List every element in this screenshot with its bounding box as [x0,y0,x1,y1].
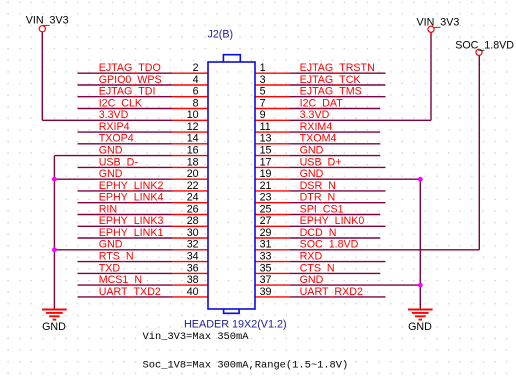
svg-text:DSR_N: DSR_N [300,180,336,192]
svg-text:USB_D+: USB_D+ [300,156,342,168]
svg-text:GND: GND [300,145,324,157]
svg-text:16: 16 [187,145,199,157]
svg-text:23: 23 [260,192,272,204]
svg-text:EPHY_LINK3: EPHY_LINK3 [99,215,164,227]
svg-text:32: 32 [187,239,199,251]
svg-text:3.3VD: 3.3VD [300,109,330,121]
svg-text:27: 27 [260,215,272,227]
svg-text:RXD: RXD [300,251,323,263]
svg-text:SOC_1.8VD: SOC_1.8VD [455,40,514,52]
svg-text:DCD_N: DCD_N [300,227,337,239]
svg-text:EJTAG_TMS: EJTAG_TMS [300,86,362,98]
svg-text:18: 18 [187,156,199,168]
svg-text:RTS_N: RTS_N [99,251,134,263]
svg-text:GND: GND [99,145,123,157]
svg-text:4: 4 [193,74,199,86]
svg-text:9: 9 [260,109,266,121]
svg-text:8: 8 [193,97,199,109]
svg-text:HEADER 19X2(V1.2): HEADER 19X2(V1.2) [184,319,287,331]
svg-text:Soc_1V8=Max 300mA,Range(1.5~1.: Soc_1V8=Max 300mA,Range(1.5~1.8V) [143,359,349,371]
svg-text:GND: GND [99,239,123,251]
svg-text:CTS_N: CTS_N [300,262,335,274]
svg-text:EJTAG_TCK: EJTAG_TCK [300,74,362,86]
svg-text:36: 36 [187,262,199,274]
svg-text:2: 2 [193,62,199,74]
svg-text:10: 10 [187,109,199,121]
svg-text:38: 38 [187,274,199,286]
svg-text:RIN: RIN [99,203,117,215]
svg-text:1: 1 [260,62,266,74]
svg-text:EJTAG_TDO: EJTAG_TDO [99,62,161,74]
svg-text:SOC_1.8VD: SOC_1.8VD [300,239,359,251]
svg-text:12: 12 [187,121,199,133]
svg-text:EPHY_LINK1: EPHY_LINK1 [99,227,164,239]
svg-text:17: 17 [260,156,272,168]
svg-text:GPIO0_WPS: GPIO0_WPS [99,74,162,86]
svg-text:I2C_DAT: I2C_DAT [300,97,344,109]
svg-text:29: 29 [260,227,272,239]
svg-text:GND: GND [408,321,432,333]
svg-text:EJTAG_TDI: EJTAG_TDI [99,86,156,98]
svg-text:Vin_3V3=Max 350mA: Vin_3V3=Max 350mA [143,331,250,343]
svg-text:GND: GND [99,168,123,180]
svg-text:6: 6 [193,86,199,98]
svg-text:EPHY_LINK4: EPHY_LINK4 [99,192,164,204]
svg-text:35: 35 [260,262,272,274]
svg-text:SPI_CS1: SPI_CS1 [300,203,344,215]
svg-text:EPHY_LINK0: EPHY_LINK0 [300,215,365,227]
svg-text:11: 11 [260,121,271,133]
svg-text:7: 7 [260,97,266,109]
svg-text:GND: GND [300,168,324,180]
svg-text:3: 3 [260,74,266,86]
svg-text:30: 30 [187,227,199,239]
svg-text:TXOM4: TXOM4 [300,133,337,145]
svg-text:UART_TXD2: UART_TXD2 [99,286,161,298]
svg-text:I2C_CLK: I2C_CLK [99,97,143,109]
svg-text:26: 26 [187,203,199,215]
svg-text:GND: GND [42,321,66,333]
svg-text:MCS1_N: MCS1_N [99,274,142,286]
svg-text:33: 33 [260,251,272,263]
svg-text:EJTAG_TRSTN: EJTAG_TRSTN [300,62,375,74]
svg-text:GND: GND [300,274,324,286]
svg-text:15: 15 [260,145,272,157]
svg-text:3.3VD: 3.3VD [99,109,129,121]
svg-text:DTR_N: DTR_N [300,192,336,204]
svg-text:19: 19 [260,168,272,180]
svg-text:31: 31 [260,239,272,251]
svg-text:EPHY_LINK2: EPHY_LINK2 [99,180,164,192]
svg-text:22: 22 [187,180,199,192]
svg-text:20: 20 [187,168,199,180]
svg-text:USB_D-: USB_D- [99,156,139,168]
svg-text:24: 24 [187,192,199,204]
svg-text:39: 39 [260,286,272,298]
svg-text:34: 34 [187,251,199,263]
svg-text:RXIM4: RXIM4 [300,121,333,133]
svg-text:TXD: TXD [99,262,121,274]
svg-text:RXIP4: RXIP4 [99,121,130,133]
svg-text:25: 25 [260,203,272,215]
svg-text:21: 21 [260,180,272,192]
svg-text:TXOP4: TXOP4 [99,133,134,145]
svg-text:J2(B): J2(B) [208,28,234,40]
svg-text:VIN_3V3: VIN_3V3 [26,15,69,27]
svg-text:5: 5 [260,86,266,98]
svg-text:40: 40 [187,286,199,298]
svg-text:VIN_3V3: VIN_3V3 [417,16,460,28]
svg-text:28: 28 [187,215,199,227]
svg-text:13: 13 [260,133,272,145]
svg-text:UART_RXD2: UART_RXD2 [300,286,363,298]
svg-text:37: 37 [260,274,272,286]
svg-text:14: 14 [187,133,199,145]
